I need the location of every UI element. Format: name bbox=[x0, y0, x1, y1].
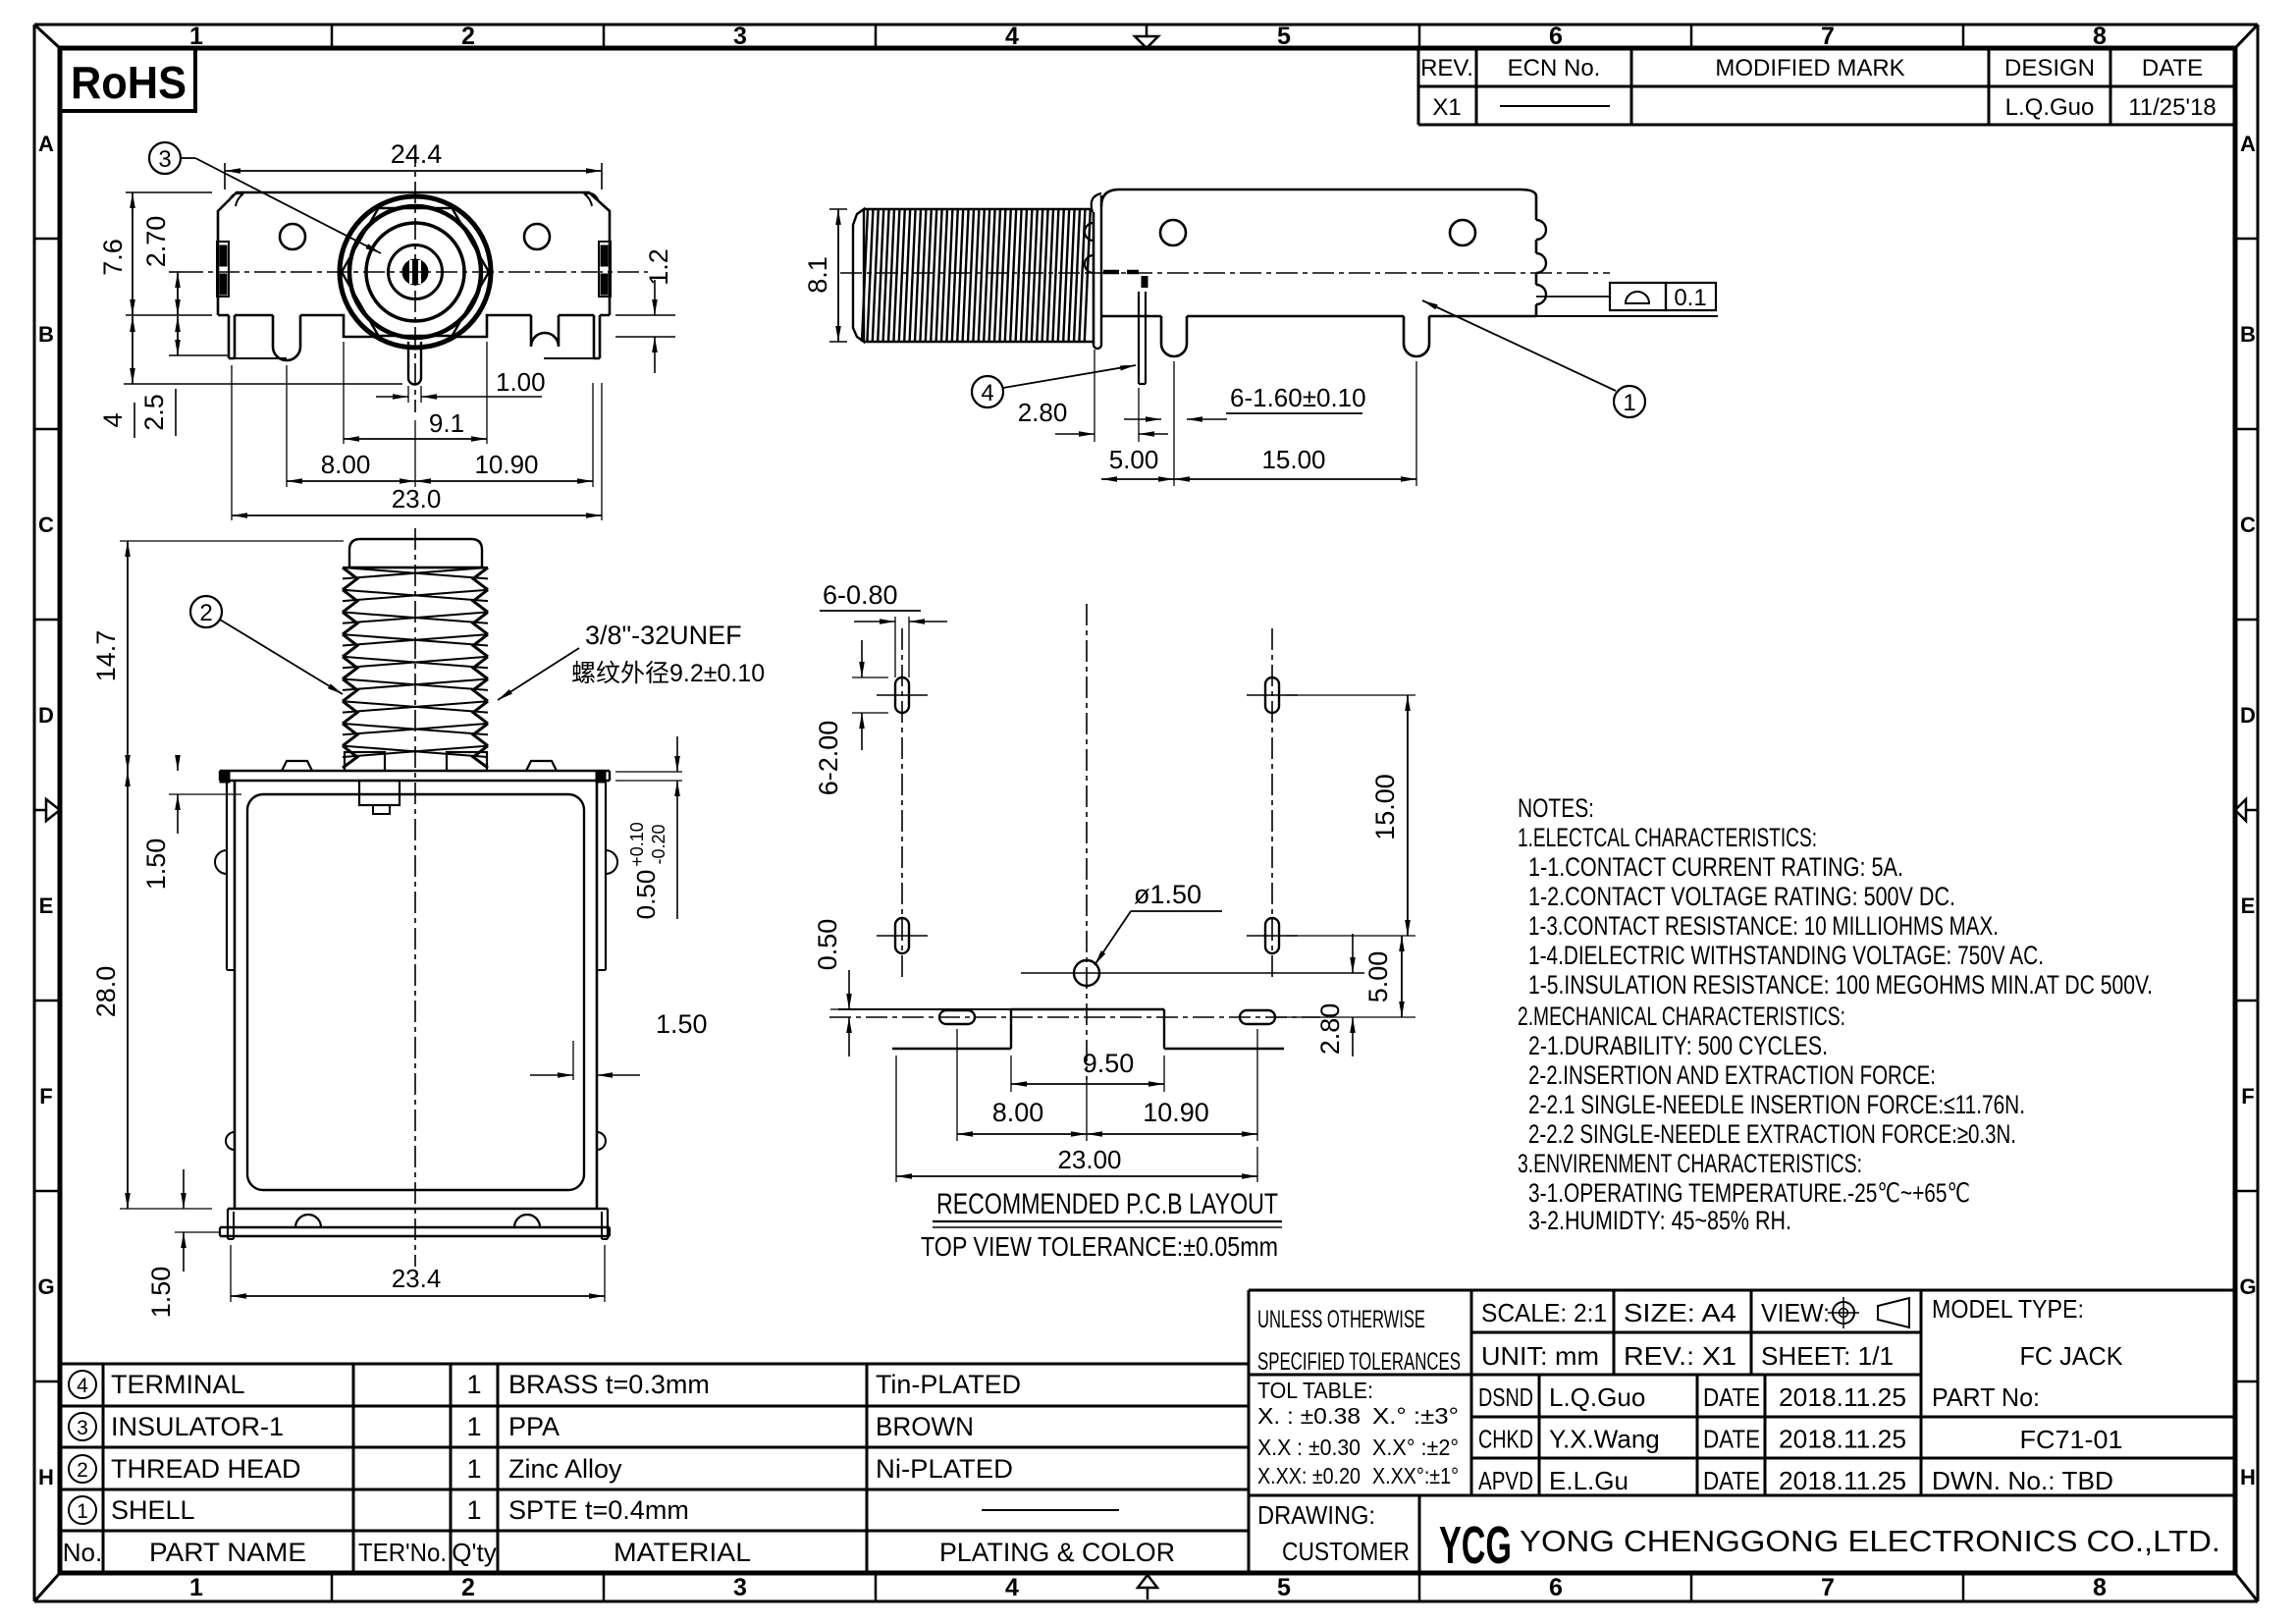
dim 23.4 bbox=[231, 1245, 605, 1302]
svg-text:DATE: DATE bbox=[1703, 1425, 1760, 1454]
svg-text:9.50: 9.50 bbox=[1083, 1049, 1135, 1078]
svg-text:E: E bbox=[39, 893, 54, 918]
svg-text:TER'No.: TER'No. bbox=[358, 1538, 447, 1567]
svg-text:1-4.DIELECTRIC WITHSTANDING VO: 1-4.DIELECTRIC WITHSTANDING VOLTAGE: 750… bbox=[1528, 941, 2044, 970]
balloon 3 bbox=[149, 142, 181, 174]
pcb center hole bbox=[1074, 960, 1099, 986]
dim 15.00 bbox=[1174, 361, 1416, 486]
svg-text:1: 1 bbox=[466, 1495, 481, 1525]
svg-text:E.L.Gu: E.L.Gu bbox=[1549, 1466, 1629, 1495]
svg-text:Ni-PLATED: Ni-PLATED bbox=[876, 1454, 1013, 1484]
bottom view centerline bbox=[414, 528, 416, 1267]
corner diagonal bottom-right bbox=[2235, 1573, 2258, 1601]
front view plate outline bbox=[218, 192, 610, 315]
side view body outline bbox=[1101, 189, 1546, 316]
svg-text:1-1.CONTACT CURRENT RATING: 5: 1-1.CONTACT CURRENT RATING: 5A. bbox=[1528, 852, 1903, 882]
side view terminal pin bbox=[1103, 272, 1146, 384]
dim 10.90 pcb bbox=[1087, 1029, 1257, 1141]
front view thread inner circle bbox=[349, 206, 481, 338]
svg-text:Q'ty: Q'ty bbox=[452, 1538, 496, 1567]
svg-text:X.XX: ±0.20: X.XX: ±0.20 bbox=[1257, 1463, 1361, 1489]
svg-text:X1: X1 bbox=[1432, 94, 1461, 121]
centering mark left bbox=[34, 799, 60, 821]
svg-text:1.2: 1.2 bbox=[644, 248, 673, 286]
bottom view body sides bbox=[227, 781, 606, 1209]
svg-text:1-5.INSULATION RESISTANCE: 100: 1-5.INSULATION RESISTANCE: 100 MEGOHMS M… bbox=[1528, 970, 2153, 1000]
dim 2.80 bbox=[1018, 350, 1168, 442]
dim 1.50 top bbox=[141, 755, 241, 890]
svg-text:BRASS t=0.3mm: BRASS t=0.3mm bbox=[508, 1370, 710, 1399]
svg-text:DATE: DATE bbox=[2142, 55, 2203, 81]
revision table grid bbox=[1418, 48, 2235, 125]
front view centerline horizontal bbox=[182, 271, 648, 273]
side view datum extension line bbox=[1536, 315, 1718, 317]
dim 0.50 pcb bbox=[813, 919, 852, 1056]
svg-text:2.70: 2.70 bbox=[141, 216, 171, 268]
svg-text:10.90: 10.90 bbox=[1143, 1098, 1209, 1127]
svg-text:RECOMMENDED P.C.B LAYOUT: RECOMMENDED P.C.B LAYOUT bbox=[936, 1188, 1278, 1220]
svg-text:1.ELECTCAL CHARACTERISTICS:: 1.ELECTCAL CHARACTERISTICS: bbox=[1518, 823, 1817, 852]
svg-text:1.00: 1.00 bbox=[496, 367, 546, 397]
revision table text bbox=[1420, 55, 2216, 121]
svg-text:6: 6 bbox=[1549, 1574, 1563, 1601]
svg-text:2.MECHANICAL CHARACTERISTICS:: 2.MECHANICAL CHARACTERISTICS: bbox=[1518, 1001, 1845, 1031]
svg-text:RoHS: RoHS bbox=[71, 57, 187, 108]
svg-text:No.: No. bbox=[63, 1538, 102, 1567]
svg-text:CUSTOMER: CUSTOMER bbox=[1282, 1537, 1410, 1566]
svg-text:11/25'18: 11/25'18 bbox=[2128, 94, 2216, 121]
dim 1.50 bottom bbox=[146, 1169, 220, 1318]
svg-text:6-1.60±0.10: 6-1.60±0.10 bbox=[1230, 383, 1366, 412]
svg-text:UNIT: mm: UNIT: mm bbox=[1481, 1341, 1599, 1371]
dim 5.00 bbox=[1101, 361, 1174, 486]
dim 6-1.60 bbox=[1124, 383, 1366, 422]
svg-text:ECN No.: ECN No. bbox=[1508, 55, 1601, 81]
corner diagonal top-left bbox=[34, 25, 60, 48]
front view bottom contour left bbox=[218, 315, 374, 360]
balloon 1 leader bbox=[1422, 300, 1616, 391]
dim 8.1 bbox=[803, 209, 847, 342]
svg-text:Zinc Alloy: Zinc Alloy bbox=[508, 1454, 622, 1484]
svg-text:Y.X.Wang: Y.X.Wang bbox=[1549, 1425, 1660, 1454]
svg-text:C: C bbox=[38, 513, 54, 537]
balloon 4 leader bbox=[1003, 365, 1136, 388]
svg-text:2.80: 2.80 bbox=[1315, 1003, 1345, 1056]
svg-text:14.7: 14.7 bbox=[91, 630, 121, 682]
svg-text:3: 3 bbox=[733, 1574, 747, 1601]
svg-text:YCG: YCG bbox=[1439, 1516, 1512, 1575]
svg-text:D: D bbox=[38, 703, 54, 728]
svg-text:G: G bbox=[37, 1274, 54, 1299]
svg-text:3: 3 bbox=[158, 146, 171, 173]
dim 1.00 bbox=[376, 367, 546, 403]
tolerance table text bbox=[1257, 1378, 1459, 1489]
svg-text:H: H bbox=[2240, 1465, 2256, 1489]
svg-text:0.1: 0.1 bbox=[1674, 285, 1706, 311]
front view hole right bbox=[524, 224, 550, 249]
flatness callout bbox=[1536, 283, 1716, 311]
dim 23.0 bbox=[232, 365, 602, 520]
dim 24.4 bbox=[225, 139, 602, 189]
svg-text:24.4: 24.4 bbox=[391, 139, 443, 169]
svg-text:MODEL TYPE:: MODEL TYPE: bbox=[1932, 1294, 2084, 1324]
side view centerline bbox=[840, 272, 1610, 274]
svg-text:8: 8 bbox=[2093, 23, 2107, 50]
svg-text:DESIGN: DESIGN bbox=[2004, 55, 2095, 81]
bottom view insulator tabs bbox=[359, 781, 400, 814]
svg-text:FC71-01: FC71-01 bbox=[2020, 1425, 2123, 1454]
balloon 2 leader bbox=[220, 620, 343, 694]
svg-text:X. : ±0.38: X. : ±0.38 bbox=[1257, 1403, 1361, 1429]
svg-text:DATE: DATE bbox=[1703, 1382, 1760, 1412]
svg-text:8.00: 8.00 bbox=[992, 1098, 1044, 1127]
bottom view thread base blocks bbox=[345, 752, 487, 771]
balloon 2 bbox=[190, 596, 222, 627]
svg-text:2.5: 2.5 bbox=[139, 394, 169, 431]
svg-text:2-1.DURABILITY: 500 CYCLES.: 2-1.DURABILITY: 500 CYCLES. bbox=[1528, 1031, 1828, 1060]
front view shell circle bbox=[366, 223, 464, 321]
svg-text:PLATING & COLOR: PLATING & COLOR bbox=[939, 1538, 1175, 1567]
svg-text:APVD: APVD bbox=[1478, 1466, 1533, 1495]
svg-text:TOP VIEW TOLERANCE:±0.05mm: TOP VIEW TOLERANCE:±0.05mm bbox=[921, 1231, 1278, 1262]
dim 8.00 bbox=[287, 365, 415, 487]
bottom view thread bbox=[343, 568, 488, 768]
svg-text:REV.: REV. bbox=[1420, 55, 1473, 81]
svg-text:7: 7 bbox=[1821, 23, 1835, 50]
svg-text:G: G bbox=[2239, 1274, 2256, 1299]
svg-text:2-2.2 SINGLE-NEEDLE EXTRACTION: 2-2.2 SINGLE-NEEDLE EXTRACTION FORCE:≥0.… bbox=[1528, 1119, 2016, 1149]
corner diagonal bottom-left bbox=[34, 1573, 60, 1601]
balloon 1 bbox=[1614, 386, 1645, 417]
dim 6-0.80 bbox=[820, 580, 947, 677]
svg-text:PART NAME: PART NAME bbox=[149, 1538, 306, 1567]
svg-text:23.00: 23.00 bbox=[1057, 1145, 1121, 1174]
svg-text:D: D bbox=[2240, 703, 2256, 728]
dim 1.50 right bbox=[530, 1009, 708, 1080]
dim 2.5 bbox=[139, 316, 229, 436]
dim 9.1 bbox=[344, 342, 487, 444]
svg-text:YONG CHENGGONG ELECTRONICS CO.: YONG CHENGGONG ELECTRONICS CO.,LTD. bbox=[1520, 1524, 2220, 1558]
svg-text:TERMINAL: TERMINAL bbox=[111, 1370, 245, 1399]
svg-text:9.1: 9.1 bbox=[429, 408, 464, 438]
front view insulator circle bbox=[389, 245, 443, 299]
svg-text:23.4: 23.4 bbox=[392, 1264, 442, 1293]
svg-text:E: E bbox=[2241, 893, 2256, 918]
svg-text:3: 3 bbox=[733, 23, 747, 50]
svg-text:8: 8 bbox=[2093, 1574, 2107, 1601]
front view center contact bbox=[403, 260, 428, 285]
thread spec leader bbox=[498, 648, 579, 700]
svg-text:2-2.1 SINGLE-NEEDLE INSERTION: 2-2.1 SINGLE-NEEDLE INSERTION FORCE:≤11.… bbox=[1528, 1090, 2025, 1119]
front view seating line right bbox=[544, 357, 600, 359]
title block staff rows bbox=[1478, 1382, 2123, 1495]
svg-text:X.XX°:±1°: X.XX°:±1° bbox=[1372, 1463, 1459, 1489]
svg-text:FC JACK: FC JACK bbox=[2020, 1341, 2124, 1371]
svg-text:2: 2 bbox=[199, 600, 212, 626]
front view edge slots bbox=[217, 242, 611, 297]
front view outer circle bbox=[340, 196, 491, 348]
svg-text:1: 1 bbox=[189, 1574, 203, 1601]
svg-text:2018.11.25: 2018.11.25 bbox=[1779, 1425, 1906, 1454]
svg-text:SIZE: A4: SIZE: A4 bbox=[1624, 1298, 1736, 1327]
svg-text:SHELL: SHELL bbox=[111, 1495, 195, 1525]
svg-text:10.90: 10.90 bbox=[474, 450, 538, 479]
svg-text:B: B bbox=[38, 322, 54, 347]
company logo bbox=[1439, 1516, 1512, 1575]
svg-text:F: F bbox=[2241, 1084, 2254, 1109]
dim 2.70 bbox=[141, 216, 182, 315]
svg-text:7.6: 7.6 bbox=[98, 239, 128, 276]
svg-text:H: H bbox=[38, 1465, 54, 1489]
dim 7.6 bbox=[98, 192, 212, 315]
bottom view bottom flange bbox=[220, 1209, 610, 1239]
svg-text:C: C bbox=[2240, 513, 2256, 537]
svg-text:INSULATOR-1: INSULATOR-1 bbox=[111, 1412, 284, 1441]
svg-text:UNLESS OTHERWISE: UNLESS OTHERWISE bbox=[1257, 1306, 1425, 1333]
svg-text:A: A bbox=[2240, 132, 2256, 156]
dim 10.90 bbox=[415, 383, 593, 487]
svg-text:1: 1 bbox=[77, 1500, 88, 1523]
front view seating line left bbox=[235, 357, 287, 359]
svg-text:SHEET: 1/1: SHEET: 1/1 bbox=[1761, 1341, 1894, 1371]
svg-text:1: 1 bbox=[1623, 390, 1635, 416]
svg-text:2018.11.25: 2018.11.25 bbox=[1779, 1466, 1906, 1495]
dim 2.80 pcb bbox=[1099, 934, 1364, 1056]
svg-text:0.50: 0.50 bbox=[813, 919, 842, 971]
front view center pin bbox=[408, 342, 421, 385]
svg-text:4: 4 bbox=[1005, 1574, 1019, 1601]
svg-text:1.50: 1.50 bbox=[146, 1267, 176, 1319]
svg-text:3: 3 bbox=[77, 1417, 88, 1439]
side view flange bbox=[1085, 193, 1101, 349]
bottom view top flange bbox=[220, 761, 610, 783]
svg-text:-0.20: -0.20 bbox=[649, 824, 668, 864]
svg-text:8.00: 8.00 bbox=[321, 450, 371, 479]
pcb caption bbox=[921, 1188, 1282, 1262]
svg-text:DWN. No.: TBD: DWN. No.: TBD bbox=[1932, 1466, 2113, 1495]
title block grid bbox=[1249, 1290, 2235, 1572]
pcb part outline bbox=[838, 1009, 1284, 1049]
dim 5.00 pcb bbox=[1276, 936, 1415, 1017]
dim 28.0 bbox=[91, 771, 212, 1209]
svg-text:4: 4 bbox=[77, 1375, 88, 1397]
svg-text:6-0.80: 6-0.80 bbox=[823, 580, 898, 610]
dim 6-2.00 bbox=[814, 640, 888, 795]
svg-text:3/8"-32UNEF: 3/8"-32UNEF bbox=[585, 621, 742, 650]
bottom view side bumps bbox=[215, 850, 617, 1150]
dim 15.00 pcb bbox=[1286, 695, 1415, 936]
svg-text:L.Q.Guo: L.Q.Guo bbox=[1549, 1382, 1645, 1412]
svg-text:4: 4 bbox=[981, 380, 993, 406]
svg-text:BROWN: BROWN bbox=[876, 1412, 974, 1441]
svg-text:1: 1 bbox=[466, 1370, 481, 1399]
svg-text:0.50: 0.50 bbox=[631, 870, 661, 920]
svg-text:NOTES:: NOTES: bbox=[1518, 793, 1594, 823]
svg-text:L.Q.Guo: L.Q.Guo bbox=[2005, 94, 2095, 121]
svg-text:1.50: 1.50 bbox=[656, 1009, 708, 1039]
svg-text:+0.10: +0.10 bbox=[627, 822, 647, 867]
side view hole right bbox=[1450, 220, 1475, 245]
svg-text:DATE: DATE bbox=[1703, 1466, 1760, 1495]
svg-text:2.80: 2.80 bbox=[1018, 398, 1068, 427]
dim dia 1.50 bbox=[1095, 880, 1222, 965]
RoHS text bbox=[71, 57, 187, 108]
dim 23.00 pcb bbox=[896, 1056, 1257, 1182]
svg-text:B: B bbox=[2240, 322, 2256, 347]
thread spec text bbox=[571, 621, 765, 687]
side view thread end cap bbox=[853, 209, 864, 342]
svg-text:A: A bbox=[38, 132, 54, 156]
svg-text:2: 2 bbox=[461, 23, 475, 50]
front view ear right bbox=[585, 193, 599, 206]
svg-text:1: 1 bbox=[189, 23, 203, 50]
svg-text:螺纹外径9.2±0.10: 螺纹外径9.2±0.10 bbox=[571, 660, 765, 687]
dim 0.50 tol bbox=[615, 736, 682, 919]
svg-text:SPTE t=0.4mm: SPTE t=0.4mm bbox=[508, 1495, 689, 1525]
dim 4 bbox=[98, 316, 402, 438]
centering mark bottom bbox=[1138, 1575, 1157, 1599]
svg-text:1.50: 1.50 bbox=[141, 839, 171, 891]
title block row text bbox=[1257, 1294, 2123, 1376]
centering mark top bbox=[1135, 25, 1158, 48]
bottom view thread cap bbox=[349, 539, 482, 568]
svg-text:7: 7 bbox=[1821, 1574, 1835, 1601]
svg-text:3-1.OPERATING TEMPERATURE.-25℃: 3-1.OPERATING TEMPERATURE.-25℃~+65℃ bbox=[1528, 1178, 1970, 1208]
svg-text:X.X° :±2°: X.X° :±2° bbox=[1372, 1435, 1459, 1460]
svg-text:1: 1 bbox=[466, 1454, 481, 1484]
RoHS box bbox=[60, 48, 195, 111]
svg-text:23.0: 23.0 bbox=[392, 484, 442, 514]
dim 1.2 bbox=[615, 248, 675, 373]
svg-text:REV.: X1: REV.: X1 bbox=[1624, 1341, 1736, 1371]
front view hex flats bbox=[342, 208, 489, 336]
svg-text:ø1.50: ø1.50 bbox=[1134, 880, 1201, 909]
svg-text:Tin-PLATED: Tin-PLATED bbox=[876, 1370, 1021, 1399]
svg-text:3-2.HUMIDTY: 45~85% RH.: 3-2.HUMIDTY: 45~85% RH. bbox=[1528, 1206, 1791, 1235]
svg-text:DSND: DSND bbox=[1478, 1382, 1533, 1412]
svg-text:2: 2 bbox=[77, 1459, 88, 1482]
svg-text:1-2.CONTACT VOLTAGE RATING: 50: 1-2.CONTACT VOLTAGE RATING: 500V DC. bbox=[1528, 882, 1955, 911]
svg-text:THREAD HEAD: THREAD HEAD bbox=[111, 1454, 301, 1484]
svg-text:5: 5 bbox=[1277, 23, 1291, 50]
svg-text:2: 2 bbox=[461, 1574, 475, 1601]
svg-text:DRAWING:: DRAWING: bbox=[1257, 1500, 1375, 1530]
front view bottom contour right bbox=[456, 315, 610, 358]
svg-text:4: 4 bbox=[98, 412, 128, 427]
svg-text:4: 4 bbox=[1005, 23, 1019, 50]
side view hole left bbox=[1160, 220, 1186, 245]
notes text bbox=[1518, 793, 2153, 1235]
bottom view inner shell bbox=[247, 794, 584, 1190]
svg-text:28.0: 28.0 bbox=[91, 966, 121, 1018]
svg-text:5: 5 bbox=[1277, 1574, 1291, 1601]
view projection symbols bbox=[1828, 1297, 1909, 1328]
svg-text:X.X : ±0.30: X.X : ±0.30 bbox=[1257, 1435, 1361, 1460]
svg-text:5.00: 5.00 bbox=[1109, 445, 1159, 474]
svg-text:15.00: 15.00 bbox=[1370, 774, 1400, 840]
svg-text:MODIFIED MARK: MODIFIED MARK bbox=[1715, 55, 1904, 81]
svg-text:6: 6 bbox=[1549, 23, 1563, 50]
corner diagonal top-right bbox=[2235, 25, 2258, 48]
front view ear left bbox=[229, 193, 242, 206]
svg-text:CHKD: CHKD bbox=[1478, 1425, 1533, 1454]
svg-text:1-3.CONTACT RESISTANCE: 10 MIL: 1-3.CONTACT RESISTANCE: 10 MILLIOHMS MAX… bbox=[1528, 911, 1999, 941]
centering mark right bbox=[2235, 799, 2258, 821]
company name bbox=[1520, 1524, 2220, 1558]
pcb centerlines bbox=[829, 604, 1364, 1080]
svg-text:PART No:: PART No: bbox=[1932, 1382, 2040, 1412]
front view centerline vertical bbox=[414, 145, 416, 412]
side view thread hatch bbox=[862, 209, 1093, 342]
svg-text:VIEW:: VIEW: bbox=[1761, 1298, 1830, 1327]
drawing customer text bbox=[1257, 1500, 1410, 1566]
pcb pads bbox=[895, 677, 1279, 1024]
bom table grid bbox=[61, 1364, 1249, 1573]
svg-text:8.1: 8.1 bbox=[803, 256, 832, 294]
side view body bottom bbox=[1101, 316, 1536, 356]
svg-text:F: F bbox=[39, 1084, 52, 1109]
dim 14.7 bbox=[91, 541, 344, 771]
svg-text:15.00: 15.00 bbox=[1261, 445, 1325, 474]
dim 8.00 pcb bbox=[957, 1029, 1087, 1141]
svg-text:6-2.00: 6-2.00 bbox=[814, 721, 843, 796]
bom table text bbox=[63, 1370, 1175, 1567]
svg-text:5.00: 5.00 bbox=[1363, 951, 1393, 1003]
svg-text:2-2.INSERTION AND EXTRACTION F: 2-2.INSERTION AND EXTRACTION FORCE: bbox=[1528, 1060, 1936, 1090]
svg-text:SPECIFIED TOLERANCES: SPECIFIED TOLERANCES bbox=[1257, 1348, 1461, 1376]
svg-text:PPA: PPA bbox=[508, 1412, 560, 1441]
front view hole left bbox=[280, 224, 305, 249]
svg-text:3.ENVIRENMENT CHARACTERISTICS:: 3.ENVIRENMENT CHARACTERISTICS: bbox=[1518, 1149, 1862, 1178]
svg-text:SCALE: 2:1: SCALE: 2:1 bbox=[1481, 1298, 1607, 1327]
balloon 3 leader bbox=[181, 158, 381, 253]
svg-text:MATERIAL: MATERIAL bbox=[614, 1538, 751, 1567]
svg-text:X.° :±3°: X.° :±3° bbox=[1372, 1403, 1459, 1429]
svg-text:TOL TABLE:: TOL TABLE: bbox=[1257, 1378, 1373, 1403]
dim 9.50 bbox=[1011, 1049, 1164, 1092]
svg-text:2018.11.25: 2018.11.25 bbox=[1779, 1382, 1906, 1412]
balloon 4 bbox=[972, 376, 1003, 407]
svg-text:1: 1 bbox=[466, 1412, 481, 1441]
